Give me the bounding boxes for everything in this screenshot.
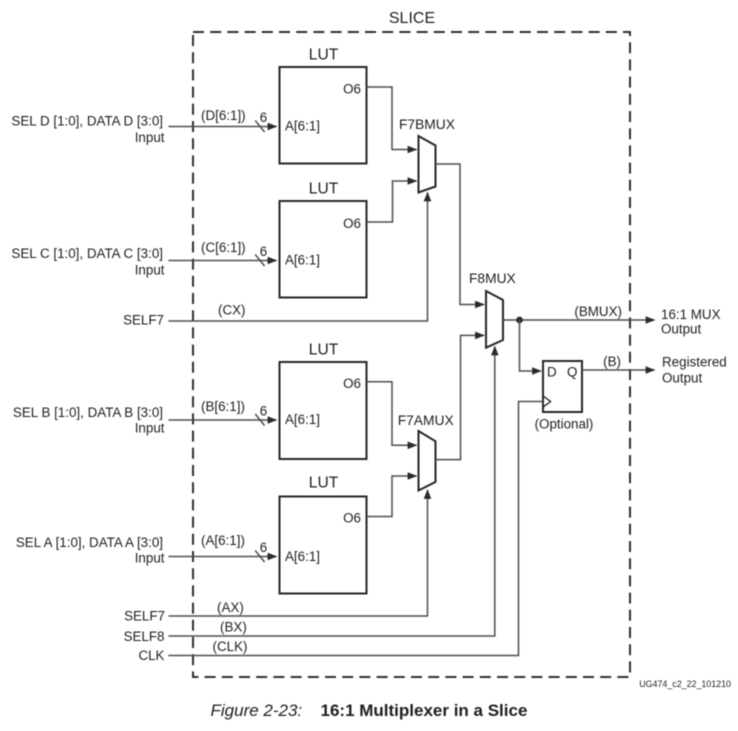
svg-text:(BX): (BX)	[220, 620, 247, 635]
svg-text:SEL A [1:0], DATA A [3:0]: SEL A [1:0], DATA A [3:0]	[16, 535, 163, 550]
svg-text:Registered: Registered	[662, 355, 727, 370]
svg-text:Q: Q	[567, 365, 577, 380]
svg-text:A[6:1]: A[6:1]	[285, 412, 320, 427]
svg-text:O6: O6	[343, 216, 361, 231]
svg-text:(Optional): (Optional)	[535, 417, 594, 432]
svg-text:F8MUX: F8MUX	[469, 271, 516, 286]
svg-text:LUT: LUT	[309, 47, 339, 64]
svg-text:Input: Input	[135, 130, 165, 145]
svg-text:SLICE: SLICE	[389, 10, 435, 27]
svg-text:A[6:1]: A[6:1]	[285, 253, 320, 268]
svg-text:LUT: LUT	[309, 475, 339, 492]
svg-text:Input: Input	[135, 421, 165, 436]
svg-text:Output: Output	[662, 371, 702, 386]
svg-text:A[6:1]: A[6:1]	[285, 119, 320, 134]
svg-text:(CX): (CX)	[218, 303, 246, 318]
svg-text:SELF8: SELF8	[124, 629, 165, 644]
svg-text:Input: Input	[135, 263, 165, 278]
svg-text:(BMUX): (BMUX)	[574, 304, 622, 319]
svg-text:A[6:1]: A[6:1]	[285, 549, 320, 564]
svg-text:LUT: LUT	[309, 342, 339, 359]
svg-text:(AX): (AX)	[217, 600, 244, 615]
svg-text:SEL C [1:0], DATA C [3:0]: SEL C [1:0], DATA C [3:0]	[11, 246, 163, 261]
svg-text:(D[6:1]): (D[6:1])	[201, 108, 246, 123]
svg-text:O6: O6	[343, 511, 361, 526]
svg-text:Output: Output	[661, 322, 701, 337]
svg-text:CLK: CLK	[138, 648, 164, 663]
svg-text:O6: O6	[343, 376, 361, 391]
svg-text:16:1 MUX: 16:1 MUX	[661, 307, 721, 322]
svg-text:6: 6	[260, 540, 267, 555]
svg-text:(CLK): (CLK)	[213, 639, 248, 654]
svg-text:O6: O6	[343, 82, 361, 97]
svg-text:(C[6:1]): (C[6:1])	[201, 240, 246, 255]
svg-text:F7BMUX: F7BMUX	[399, 117, 455, 132]
svg-text:6: 6	[260, 244, 267, 259]
svg-text:SELF7: SELF7	[123, 313, 164, 328]
svg-text:LUT: LUT	[309, 181, 339, 198]
svg-text:SEL B [1:0], DATA B [3:0]: SEL B [1:0], DATA B [3:0]	[13, 405, 163, 420]
svg-text:6: 6	[260, 404, 267, 419]
svg-text:Figure 2-23:: Figure 2-23:	[211, 701, 303, 720]
svg-text:6: 6	[260, 110, 267, 125]
svg-text:SELF7: SELF7	[124, 609, 165, 624]
svg-text:SEL D [1:0], DATA D [3:0]: SEL D [1:0], DATA D [3:0]	[11, 113, 163, 128]
svg-text:(A[6:1]): (A[6:1])	[201, 533, 245, 548]
svg-text:Input: Input	[135, 551, 165, 566]
svg-text:16:1 Multiplexer in a Slice: 16:1 Multiplexer in a Slice	[321, 701, 528, 720]
svg-text:F7AMUX: F7AMUX	[398, 413, 454, 428]
svg-text:(B[6:1]): (B[6:1])	[201, 399, 245, 414]
svg-text:UG474_c2_22_101210: UG474_c2_22_101210	[639, 679, 731, 689]
svg-text:(B): (B)	[603, 354, 621, 369]
svg-text:D: D	[547, 365, 557, 380]
